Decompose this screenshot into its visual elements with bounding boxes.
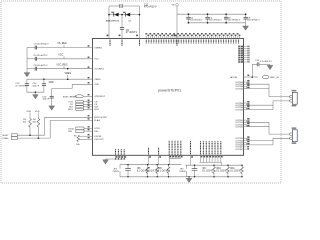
label D1 pins [111,12,114,13]
svg-text:OSCIN: OSCIN [94,136,101,138]
wire SENSA join [169,157,181,159]
resistor R9 [213,165,215,167]
capacitor C18 [194,165,196,168]
wire VREG [27,78,93,80]
svg-text:OUT1A: OUT1A [235,87,243,90]
wire ADCIN to C10 [251,64,253,77]
svg-text:OPEN: OPEN [113,171,120,173]
resistor R8 [168,165,170,167]
wire VS_REG [27,47,35,49]
capacitor C4 [207,14,209,17]
wire FLAG horizontal [17,137,50,139]
wire cap return rail [188,22,245,24]
IC right top supply pins [238,46,249,63]
wire VCC [27,58,35,60]
connector CN SPI pins [76,101,84,103]
svg-text:0.1 Ω/3 W: 0.1 Ω/3 W [230,170,241,172]
IC left pin names [94,47,107,141]
svg-text:C3 100 nF/25 V: C3 100 nF/25 V [33,65,48,67]
wire right leg charge-pump [139,6,141,39]
svg-text:STCK: STCK [94,128,100,130]
svg-text:SDO: SDO [68,109,73,111]
wire OUT1A [247,83,269,85]
svg-text:100 nF/100 V: 100 nF/100 V [247,20,260,22]
capacitor C2 [187,14,189,17]
svg-text:100 nF: 100 nF [32,85,39,87]
capacitor on VCC [34,57,36,61]
IC right pins OUT2B [235,136,249,146]
ground sense network [188,177,190,179]
svg-text:VDD: VDD [94,84,99,86]
wire SW [84,130,93,132]
connector J3 phase B [292,130,297,142]
resistor R11 [241,165,243,167]
svg-text:STBY\RST: STBY\RST [94,96,105,98]
wire left leg charge-pump [108,6,110,39]
connector J2 phase A [292,92,297,104]
net tick VCC [63,56,65,59]
IC right lower pins [244,146,247,148]
IC right pins OUT1A [235,80,249,90]
wire sense rail B top [186,164,243,166]
node pullup junctions [29,134,31,136]
ground VS caps [245,23,247,26]
wire OUT2A [247,104,273,106]
power flag VS [176,4,179,7]
svg-text:100 nF/100 V: 100 nF/100 V [228,20,241,22]
svg-text:FLAG: FLAG [3,137,9,140]
connector CN STCK SW [76,127,84,130]
capacitor C1 flying [119,4,121,8]
wire sense rail bottom shared [120,176,242,178]
svg-text:C7 100 nF/100 V: C7 100 nF/100 V [33,44,49,46]
ground C10 [269,64,271,65]
wire OUT2B [247,140,273,142]
svg-text:BAR43SFILM: BAR43SFILM [106,20,120,23]
wire SDI [83,106,92,108]
IC top pin stubs and numbers [145,33,240,39]
IC bottom pins group AGND [116,149,127,159]
svg-text:BUSY: BUSY [3,135,9,137]
wire sense rail A top [120,164,182,166]
svg-text:FLAG: FLAG [94,119,100,122]
svg-text:VCC_REG: VCC_REG [56,64,67,66]
wire top charge-pump [109,5,120,7]
wire nCS [83,101,92,103]
wire diode row [109,14,114,16]
wire AGND join [106,158,125,160]
capacitor C8 [245,14,247,17]
wire center leg charge-pump [121,15,123,28]
svg-text:47 nF/16 V: 47 nF/16 V [126,32,138,34]
capacitor C10 [256,62,258,66]
svg-text:VDD: VDD [26,111,31,113]
resistor R10 [227,165,229,167]
svg-text:100 nF: 100 nF [42,99,49,101]
svg-text:VS_REG: VS_REG [57,43,67,45]
wire CK [83,103,92,105]
connector flag ADC_IN oval [262,75,269,78]
wire STBY_RESET [84,95,93,97]
resistor R5 [77,135,80,141]
IC bottom pin SENSA1 [148,155,150,164]
svg-text:VDD: VDD [49,82,54,84]
wire OSCIN [80,135,93,137]
IC bottom pins group SENSB [201,141,223,162]
svg-text:ADCIN: ADCIN [230,76,237,79]
IC top pin names inside [146,40,238,44]
capacitor on VS_REG [34,46,36,50]
svg-text:OUTB2: OUTB2 [235,149,243,151]
IC top special pin names [109,40,111,46]
wire VS vertical [176,6,178,38]
svg-text:0.1 Ω/3 W: 0.1 Ω/3 W [147,170,158,172]
wire OUT1B [247,121,269,123]
svg-text:OPEN: OPEN [179,171,186,173]
capacitor C9 [120,27,124,29]
svg-text:OSCOUT: OSCOUT [94,139,104,141]
page border (dotted) [1,1,281,183]
connector flag STBY_RESET oval [75,95,83,98]
wire FLAG [50,119,92,121]
IC right pins OUT1B [235,118,249,128]
wire VS rail [177,13,246,15]
ground C13 C14 [34,92,36,94]
wire VDD [72,83,92,85]
IC U1 powerSTEP01 body [93,39,244,156]
node diode row junctions [108,14,110,16]
wire OSCOUT [80,138,93,140]
svg-text:VCC: VCC [58,55,63,57]
resistor R3 [29,119,32,128]
net tick VREG [67,75,69,80]
svg-text:OUT2A: OUT2A [235,108,243,111]
resistor R7 [156,165,158,167]
wire SENSB join [200,161,222,163]
svg-text:BUSY\SYNC: BUSY\SYNC [94,117,107,119]
ground left rail [24,73,30,77]
svg-text:100 nF/100 V: 100 nF/100 V [190,20,203,22]
connector CN BUSY FLAG [11,134,17,137]
wire C13 C14 bottom join [27,91,44,93]
net tick VCC_REG [63,66,65,69]
IC bottom pin SENSA2 [158,155,160,164]
svg-text:powerSTEP01: powerSTEP01 [158,88,181,92]
wire STCK [84,127,93,129]
IC right pins OUT2A [235,101,249,111]
svg-text:0.1 Ω/3 W: 0.1 Ω/3 W [216,170,227,172]
ground C15 [49,106,55,110]
IC left pin numbers [88,45,90,138]
svg-text:3.3 nF/6.3 V: 3.3 nF/6.3 V [260,61,272,63]
svg-text:VCCREG: VCCREG [94,69,104,71]
svg-text:C5 470 nF/25 V: C5 470 nF/25 V [33,55,48,57]
svg-text:ADC_IN: ADC_IN [270,76,278,79]
jumper JP1 open [119,165,121,169]
IC bottom pin single [190,155,192,165]
svg-text:100 nF/100 V: 100 nF/100 V [209,20,222,22]
svg-text:0.1 Ω/3 W: 0.1 Ω/3 W [158,170,169,172]
svg-text:VSREG: VSREG [94,47,102,49]
net tick VS_REG [63,45,65,48]
resistor R4 [37,119,40,128]
svg-text:VREG: VREG [94,79,100,81]
capacitor C17 [127,165,129,169]
wire VCC_REG [27,68,35,70]
capacitor C15 leg [51,89,53,97]
wire ADCIN [244,76,259,78]
diode D1A [114,13,119,17]
svg-text:VREG: VREG [65,73,72,75]
capacitor C6 [225,14,227,17]
wire BUSY horizontal [17,134,44,136]
svg-text:0.1 Ω/3 W: 0.1 Ω/3 W [202,170,213,172]
diode D1B [126,13,131,17]
wire BUSY_SYNC [45,116,93,118]
capacitor on VCC_REG [34,67,36,71]
wire SDO [83,108,92,110]
jumper JP2 open [186,165,188,168]
ground AGND [105,158,107,161]
wire left ground rail [26,48,28,69]
svg-text:VCC: VCC [94,59,99,61]
svg-text:470 nF/20 V: 470 nF/20 V [144,7,157,9]
capacitor C13 leg [26,79,28,84]
node VREG junctions [43,78,45,80]
svg-text:OUT1B: OUT1B [235,127,243,129]
capacitor C14 leg [43,79,45,84]
svg-text:4.7 uF/25 V: 4.7 uF/25 V [15,85,27,87]
resistor R6 [147,165,149,167]
IC bottom pins group SENSA [169,141,182,159]
svg-text:STBY_RESET: STBY_RESET [63,96,78,98]
IC top special pin numbers [107,35,109,37]
svg-text:VDD: VDD [35,111,40,113]
svg-text:SDO: SDO [94,109,99,111]
